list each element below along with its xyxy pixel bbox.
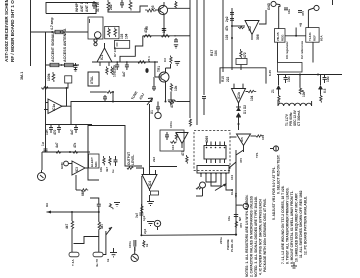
wire to notes area	[229, 150, 244, 168]
svg-text:78L05: 78L05	[276, 32, 280, 41]
wire: right rail	[235, 150, 237, 235]
svg-text:Q3: Q3	[151, 5, 155, 10]
svg-text:473: 473	[181, 150, 185, 156]
svg-text:1k: 1k	[106, 258, 110, 262]
resistor R36	[175, 132, 177, 141]
resistor R37	[170, 141, 177, 144]
junction	[112, 101, 114, 103]
wire lower bus	[46, 124, 93, 126]
transistor Q1	[155, 2, 168, 36]
wire bus A	[143, 35, 176, 37]
ground chevron	[114, 203, 120, 207]
wire collector out	[168, 7, 190, 9]
resistor R24	[111, 67, 113, 75]
wire: vertical rail D	[222, 0, 224, 72]
junction	[299, 74, 301, 76]
junction	[66, 87, 68, 89]
wire: main left vertical	[45, 32, 47, 152]
wire: psu top rail	[279, 5, 280, 29]
relay K1 box	[236, 59, 247, 65]
wire arrow feed	[47, 211, 100, 214]
junction	[295, 35, 297, 37]
wire: vertical rail B	[196, 0, 198, 125]
junction	[163, 35, 165, 37]
svg-text:2p2: 2p2	[225, 16, 229, 22]
svg-text:306: 306	[256, 34, 260, 40]
wire staircase to IF	[120, 36, 143, 62]
svg-text:LEVEL: LEVEL	[131, 155, 135, 165]
wire: main audio line	[141, 234, 236, 237]
junction	[231, 37, 233, 39]
svg-text:1u: 1u	[41, 142, 45, 146]
potentiometer VR1	[299, 75, 304, 95]
resistor R9	[161, 35, 169, 38]
svg-text:222: 222	[226, 76, 230, 82]
svg-text:NOTES: 1. ALL RESISTORS ARE 1/: NOTES: 1. ALL RESISTORS ARE 1/4 W 5% CAR…	[245, 194, 249, 277]
svg-text:2. CAPACITOR VALUES IN MICROFA: 2. CAPACITOR VALUES IN MICROFARADS UNLES…	[250, 195, 254, 277]
wire between boxes	[285, 35, 306, 37]
notes column B	[272, 155, 308, 264]
svg-text:ANT 1: ANT 1	[80, 2, 84, 12]
resistor R43	[98, 212, 101, 252]
blob electrolytic	[145, 68, 148, 73]
node A: antenna box top-left	[46, 3, 96, 14]
junction	[51, 31, 53, 33]
gnd jack circle 2	[308, 5, 319, 10]
capacitor C8	[230, 19, 234, 21]
svg-text:10k: 10k	[99, 167, 103, 172]
svg-text:3M-1: 3M-1	[20, 72, 24, 80]
capacitor C3 input	[92, 1, 96, 9]
svg-text:R15: R15	[221, 76, 225, 82]
resistor R31	[72, 151, 79, 154]
shield box big	[88, 126, 125, 181]
junction	[231, 25, 233, 27]
svg-text:R17: R17	[210, 50, 214, 56]
svg-text:47k: 47k	[73, 142, 77, 148]
wire to gnd jack	[236, 204, 243, 206]
resistor R6	[114, 28, 117, 38]
svg-text:2g2: 2g2	[135, 212, 139, 218]
svg-text:2g4: 2g4	[143, 228, 147, 234]
title text: schematic name, rotated along left edge	[4, 0, 15, 62]
wire	[177, 101, 190, 103]
svg-text:470: 470	[301, 11, 305, 16]
svg-text:9. MOUNT CRYSTAL X1 WELL AWAY: 9. MOUNT CRYSTAL X1 WELL AWAY FROM T1.	[290, 191, 294, 264]
svg-text:470: 470	[53, 129, 57, 135]
svg-text:IC1: IC1	[100, 55, 104, 60]
resistor R1a	[50, 63, 59, 66]
svg-text:4u7: 4u7	[70, 129, 74, 135]
svg-text:2k2: 2k2	[109, 4, 113, 10]
wire feedback down	[141, 176, 143, 208]
wire	[312, 42, 314, 62]
svg-text:PLUG J3: PLUG J3	[230, 239, 234, 252]
resistor R39	[186, 155, 188, 164]
junction	[235, 234, 237, 236]
svg-text:470: 470	[239, 158, 243, 163]
wire y=63	[46, 64, 80, 66]
svg-text:TR1: TR1	[157, 66, 161, 72]
svg-text:Z1: Z1	[271, 89, 275, 93]
op-amp IC6 left of dashed box	[176, 133, 188, 149]
resistor R10	[175, 1, 177, 8]
svg-text:CT 300mA: CT 300mA	[297, 110, 301, 126]
svg-text:X1: X1	[150, 110, 154, 114]
ground 2	[147, 222, 154, 226]
svg-text:104: 104	[261, 135, 265, 140]
crystal Y1 circle	[155, 112, 161, 118]
fuse F3 oval	[93, 252, 103, 257]
filter box	[278, 63, 303, 73]
junction	[140, 234, 142, 236]
capacitor bypass 2 + ground	[175, 62, 181, 66]
microphone M1	[131, 247, 138, 262]
wire collector tie	[166, 64, 171, 68]
resistor R4	[145, 9, 156, 12]
wire: left bus vertical	[30, 0, 32, 66]
svg-text:7. L1, L2 ARE WOUND ON T37-2 C: 7. L1, L2 ARE WOUND ON T37-2 CORES, 18 T…	[281, 185, 285, 264]
svg-text:4u 7V: 4u 7V	[95, 259, 99, 267]
IC U2 DIP	[197, 166, 229, 178]
value label inside antenna box	[75, 2, 89, 12]
svg-text:NP: NP	[238, 217, 242, 221]
diode Z2 zener	[318, 75, 322, 95]
svg-text:6.5: 6.5	[323, 88, 327, 93]
op-amp IC1	[97, 43, 112, 66]
capacitor C17 on rail C	[202, 97, 206, 116]
wire to mixer	[108, 6, 148, 12]
svg-text:104: 104	[250, 95, 254, 101]
svg-text:4k7: 4k7	[65, 223, 69, 229]
junction	[69, 151, 71, 153]
wire from mic amp	[90, 198, 99, 201]
svg-text:472: 472	[243, 52, 247, 58]
jack J1	[38, 170, 46, 181]
svg-text:TL431: TL431	[308, 32, 312, 41]
shield box B1	[88, 72, 99, 86]
IC U1 DIP	[204, 142, 226, 164]
svg-text:103: 103	[225, 34, 229, 40]
svg-text:100n: 100n	[128, 241, 132, 248]
svg-text:10n: 10n	[45, 129, 49, 135]
svg-text:10u: 10u	[326, 76, 330, 82]
wire	[90, 91, 106, 93]
svg-text:XTAL: XTAL	[90, 76, 94, 84]
wire bus B	[141, 61, 158, 63]
capacitor C5	[115, 62, 119, 70]
resistor R29	[320, 94, 322, 103]
wire input top	[42, 151, 90, 153]
wire: vertical rail A	[189, 0, 191, 118]
resistor R20	[240, 49, 242, 58]
svg-text:104: 104	[171, 145, 175, 150]
diode D2	[236, 113, 241, 131]
ground chevron 2	[110, 248, 117, 257]
svg-text:100k: 100k	[47, 73, 51, 81]
svg-text:4u7: 4u7	[55, 142, 59, 148]
svg-text:IC4: IC4	[148, 181, 152, 186]
regulator U3 box	[275, 29, 286, 43]
svg-text:ACCESS ANTENNA: ACCESS ANTENNA	[63, 28, 67, 62]
box above op-amp	[114, 41, 129, 49]
pot wiper arrow	[147, 98, 153, 105]
junction	[71, 211, 73, 213]
svg-text:IC5: IC5	[240, 137, 244, 142]
junction	[317, 74, 319, 76]
svg-text:11. ALL SWITCHES SHOWN OFF. RE: 11. ALL SWITCHES SHOWN OFF. REV 1982	[299, 190, 303, 258]
wire	[76, 189, 80, 191]
svg-text:1g1: 1g1	[142, 215, 146, 221]
svg-text:MIC: MIC	[94, 161, 98, 167]
svg-text:PACKAGE WITH 100n CERAMIC DISC: PACKAGE WITH 100n CERAMIC DISC AT PINS.	[263, 198, 267, 272]
test points CP	[94, 39, 97, 46]
capacitor C6	[125, 62, 129, 70]
transistor TR1	[155, 68, 169, 88]
wire stub top right	[332, 0, 334, 5]
svg-text:220u: 220u	[219, 237, 223, 244]
svg-text:C3: C3	[163, 58, 167, 62]
svg-text:12. PC BOARD PATTERN AVAILABLE: 12. PC BOARD PATTERN AVAILABLE.	[304, 196, 308, 255]
resistor R32	[80, 189, 88, 192]
resistor R5	[108, 28, 111, 38]
capacitor C24	[134, 240, 136, 251]
resistor R21	[52, 72, 55, 82]
coil box	[105, 26, 119, 38]
capacitor C20	[44, 146, 48, 151]
resistor R33	[103, 156, 105, 165]
op-amp IC1a	[44, 88, 113, 125]
osc can box	[88, 17, 103, 39]
resistor R19 rail end	[189, 119, 191, 127]
svg-text:473: 473	[144, 27, 148, 33]
resistor R27 feedback	[248, 90, 256, 92]
svg-text:IC2b: IC2b	[237, 92, 241, 99]
capacitor C7	[230, 13, 234, 15]
svg-text:10u: 10u	[287, 9, 291, 14]
svg-text:D1 D2: D1 D2	[243, 105, 247, 114]
svg-text:T 4A: T 4A	[71, 259, 75, 266]
resistor R1b	[64, 63, 73, 66]
mic sub-box	[89, 154, 100, 168]
pad P1	[151, 191, 159, 195]
svg-text:5. ADJUST VR1 FOR 6.0 V AT TP1: 5. ADJUST VR1 FOR 6.0 V AT TP1.	[272, 167, 276, 220]
junction	[238, 123, 240, 125]
svg-text:10u: 10u	[287, 76, 291, 82]
svg-text:4k7: 4k7	[105, 167, 109, 172]
svg-text:10k: 10k	[302, 91, 306, 97]
capacitor C19 electrolytic	[323, 75, 327, 84]
resistor R40	[196, 187, 201, 189]
svg-text:220k: 220k	[113, 65, 117, 72]
svg-text:C9 regulator: C9 regulator	[285, 40, 289, 59]
svg-text:IC1a: IC1a	[52, 104, 56, 111]
dashed logic box	[194, 131, 230, 171]
diode D1	[236, 107, 241, 111]
svg-text:100n: 100n	[169, 121, 173, 128]
wire: vertical rail C	[203, 0, 205, 95]
junction	[98, 211, 100, 213]
capacitor C25 electrolytic	[234, 215, 238, 217]
resistor R30	[55, 151, 62, 154]
junction	[154, 61, 156, 63]
pot wiper diagonal	[215, 184, 227, 191]
trimmer box	[65, 76, 72, 83]
wire	[277, 42, 279, 62]
crystal X2	[200, 182, 206, 196]
svg-text:IC3: IC3	[75, 167, 79, 172]
wire wiper down	[149, 104, 151, 175]
svg-text:47k: 47k	[225, 25, 229, 31]
svg-text:68k: 68k	[81, 190, 85, 196]
wire	[165, 88, 167, 102]
capacitor C13	[74, 125, 78, 134]
wire jack lead	[41, 152, 43, 170]
svg-text:1k: 1k	[145, 243, 149, 247]
svg-text:4k7: 4k7	[100, 223, 104, 229]
op-amp IC5	[230, 134, 256, 152]
ground far right	[291, 262, 297, 268]
svg-text:104: 104	[214, 50, 218, 56]
jack J2	[154, 220, 160, 230]
resistor R2	[107, 0, 110, 11]
wire	[150, 166, 178, 168]
pin route wires	[206, 177, 233, 190]
resistor R25	[106, 91, 113, 94]
capacitor C26 top	[97, 201, 101, 212]
capacitor C14	[103, 95, 107, 101]
ground symbol mid	[270, 146, 279, 151]
resistor R38	[141, 204, 143, 213]
svg-text:ANT 2: ANT 2	[85, 2, 89, 12]
svg-text:IC2: IC2	[248, 26, 252, 31]
IF box top	[220, 68, 266, 84]
resistor R46	[143, 240, 145, 247]
resistor R26	[168, 100, 177, 103]
capacitor C22	[165, 132, 169, 140]
svg-text:2k2: 2k2	[152, 157, 156, 162]
svg-text:103: 103	[120, 33, 124, 39]
ground jack circle	[243, 203, 248, 209]
op-amp IC2b	[232, 89, 249, 108]
transformer T1 primary	[278, 103, 312, 106]
svg-text:472: 472	[170, 102, 174, 108]
svg-text:REG: REG	[281, 34, 285, 41]
svg-text:60A: 60A	[320, 35, 324, 41]
svg-text:4u7: 4u7	[122, 71, 126, 77]
wire level bus	[125, 133, 142, 166]
label column pins	[230, 175, 238, 198]
pin labels column	[225, 16, 229, 40]
resistor R41	[256, 135, 263, 137]
gnd jack circle	[271, 1, 280, 6]
ground	[147, 202, 154, 206]
svg-text:104: 104	[125, 33, 129, 39]
svg-text:6. SELECT R15 ON TEST.: 6. SELECT R15 ON TEST.	[277, 155, 281, 194]
notes column A	[245, 194, 267, 277]
resistor R22	[41, 87, 48, 90]
wire to rails	[178, 35, 190, 37]
wire: fuse feed y=32	[31, 31, 89, 33]
svg-text:TP1: TP1	[255, 152, 259, 158]
svg-text:RX: RX	[45, 203, 49, 207]
gnd label	[64, 161, 72, 166]
capacitor C27	[139, 213, 143, 215]
svg-text:10. SHIELDED BOX REQUIRED AT M: 10. SHIELDED BOX REQUIRED AT MIC AMP.	[295, 193, 299, 262]
resistor R23	[106, 67, 108, 75]
capacitor C11	[49, 125, 53, 134]
resistor R35	[127, 167, 133, 170]
capacitor C4	[120, 0, 124, 8]
resistor R3	[129, 0, 132, 11]
svg-text:NOTED. 3. ALL SIGNAL DIODES AR: NOTED. 3. ALL SIGNAL DIODES ARE TYPE 1N4…	[254, 196, 258, 277]
wire base cap tie	[153, 77, 155, 85]
svg-text:8. TWIST ALL TRANSFORMER PRIMA: 8. TWIST ALL TRANSFORMER PRIMARY LEADS.	[286, 187, 290, 264]
op-amp IC4	[136, 168, 157, 191]
wire	[295, 28, 297, 36]
svg-text:6.3V: 6.3V	[268, 70, 272, 76]
resistor R13 collector load	[170, 56, 172, 64]
svg-text:WHIP: WHIP	[75, 2, 79, 12]
junction	[60, 31, 62, 33]
junction	[61, 64, 63, 66]
svg-text:104: 104	[230, 175, 234, 180]
resistor R14 emitter	[170, 83, 172, 91]
capacitor C10	[298, 11, 302, 13]
svg-text:31 TW: 31 TW	[96, 1, 100, 12]
wire tune bus	[113, 101, 152, 103]
capacitor C1	[74, 63, 78, 71]
svg-text:470: 470	[239, 223, 243, 228]
svg-text:ACCENT SIGNAL: ACCENT SIGNAL	[51, 32, 55, 62]
wire to wiper	[103, 231, 106, 255]
svg-text:1u: 1u	[111, 169, 115, 173]
junction	[165, 101, 167, 103]
resistor R48 top	[109, 203, 113, 209]
junction	[112, 91, 114, 93]
op-amp IC3	[72, 126, 88, 190]
resistor R18	[238, 26, 244, 28]
op-amp IC2	[232, 10, 266, 40]
capacitor C18 electrolytic	[284, 75, 288, 84]
capacitor C21	[114, 156, 118, 166]
junction	[45, 87, 47, 89]
svg-text:10u: 10u	[227, 216, 231, 221]
svg-text:4.7 amp: 4.7 amp	[50, 17, 54, 30]
regulator U4 box	[306, 28, 319, 43]
svg-text:4. IC POWER PINS NOT SHOWN, BY: 4. IC POWER PINS NOT SHOWN, BYPASS EACH	[259, 199, 263, 275]
wire input stubs	[233, 84, 235, 89]
pot wiper arrow	[106, 227, 112, 235]
svg-text:+9: +9	[299, 23, 303, 27]
wire mic branch vertical	[140, 208, 142, 235]
transformer T1 leads	[278, 101, 312, 106]
wire psu mid rail	[277, 74, 342, 76]
svg-text:104: 104	[162, 27, 166, 33]
capacitor C15	[152, 85, 156, 91]
diode Z1 zener	[276, 75, 280, 95]
resistor R8	[144, 35, 152, 38]
resistor R42	[71, 212, 74, 252]
capacitor C16	[156, 102, 160, 113]
capacitor bypass + ground	[174, 36, 178, 48]
svg-text:AST-100Z RECEIVER SCHEMATIC: AST-100Z RECEIVER SCHEMATIC	[4, 0, 9, 62]
transformer T1 label block	[285, 109, 301, 126]
level box	[160, 130, 184, 151]
wire bottom of box	[196, 195, 203, 197]
resistor R28	[278, 94, 280, 103]
crystal circle in can	[94, 32, 101, 39]
